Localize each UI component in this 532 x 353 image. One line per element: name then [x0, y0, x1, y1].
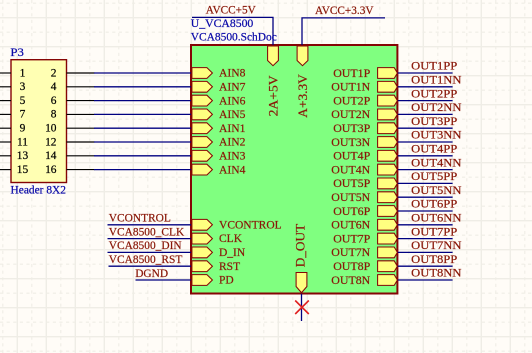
- svg-text:OUT7NN: OUT7NN: [411, 238, 462, 252]
- svg-text:AIN3: AIN3: [219, 149, 246, 163]
- svg-text:AIN4: AIN4: [219, 162, 246, 176]
- svg-text:10: 10: [45, 121, 56, 135]
- svg-text:U_VCA8500: U_VCA8500: [191, 16, 254, 30]
- svg-text:AIN5: AIN5: [219, 107, 246, 121]
- svg-text:1: 1: [20, 65, 26, 79]
- svg-text:D_IN: D_IN: [219, 245, 246, 259]
- svg-text:D_OUT: D_OUT: [293, 224, 308, 268]
- svg-text:5: 5: [20, 93, 26, 107]
- svg-text:AVCC+3.3V: AVCC+3.3V: [315, 3, 374, 17]
- svg-text:OUT6NN: OUT6NN: [411, 211, 462, 225]
- svg-text:OUT4N: OUT4N: [331, 162, 370, 176]
- svg-text:OUT5P: OUT5P: [333, 176, 370, 190]
- svg-text:2: 2: [51, 65, 57, 79]
- svg-text:OUT8N: OUT8N: [331, 273, 370, 287]
- svg-text:OUT1NN: OUT1NN: [411, 73, 462, 87]
- svg-text:OUT6P: OUT6P: [333, 204, 370, 218]
- svg-text:OUT7N: OUT7N: [331, 245, 370, 259]
- svg-text:OUT2NN: OUT2NN: [411, 100, 462, 114]
- svg-text:OUT8NN: OUT8NN: [411, 266, 462, 280]
- svg-text:OUT2N: OUT2N: [331, 107, 370, 121]
- svg-text:OUT5NN: OUT5NN: [411, 183, 462, 197]
- svg-text:OUT7P: OUT7P: [333, 231, 370, 245]
- svg-text:VCA8500_CLK: VCA8500_CLK: [109, 224, 185, 238]
- svg-text:OUT6PP: OUT6PP: [411, 197, 457, 211]
- svg-text:OUT3N: OUT3N: [331, 135, 370, 149]
- svg-text:14: 14: [45, 148, 56, 162]
- svg-text:AIN7: AIN7: [219, 80, 246, 94]
- svg-text:OUT7PP: OUT7PP: [411, 224, 457, 238]
- svg-text:OUT2P: OUT2P: [333, 93, 370, 107]
- svg-text:16: 16: [45, 162, 56, 176]
- svg-text:OUT3P: OUT3P: [333, 121, 370, 135]
- svg-text:13: 13: [17, 148, 28, 162]
- svg-text:VCONTROL: VCONTROL: [219, 217, 282, 231]
- svg-text:VCA8500_DIN: VCA8500_DIN: [109, 238, 182, 252]
- svg-text:OUT3PP: OUT3PP: [411, 114, 457, 128]
- svg-text:VCA8500.SchDoc: VCA8500.SchDoc: [191, 29, 277, 43]
- svg-text:OUT1PP: OUT1PP: [411, 59, 457, 73]
- svg-text:8: 8: [51, 107, 57, 121]
- svg-text:12: 12: [45, 134, 56, 148]
- svg-text:OUT1N: OUT1N: [331, 80, 370, 94]
- svg-text:AIN8: AIN8: [219, 66, 246, 80]
- svg-text:2A+5V: 2A+5V: [266, 75, 281, 117]
- svg-text:6: 6: [51, 93, 57, 107]
- svg-text:VCONTROL: VCONTROL: [109, 211, 171, 225]
- svg-text:OUT8P: OUT8P: [333, 259, 370, 273]
- svg-text:15: 15: [17, 162, 28, 176]
- svg-text:P3: P3: [10, 45, 23, 59]
- svg-text:OUT8PP: OUT8PP: [411, 252, 457, 266]
- svg-text:OUT4P: OUT4P: [333, 149, 370, 163]
- svg-text:OUT1P: OUT1P: [333, 66, 370, 80]
- svg-text:AIN1: AIN1: [219, 121, 246, 135]
- svg-text:11: 11: [17, 134, 28, 148]
- svg-text:7: 7: [20, 107, 26, 121]
- svg-text:OUT2PP: OUT2PP: [411, 86, 457, 100]
- svg-text:OUT3NN: OUT3NN: [411, 128, 462, 142]
- svg-text:OUT5PP: OUT5PP: [411, 169, 457, 183]
- svg-text:Header 8X2: Header 8X2: [11, 183, 67, 197]
- svg-text:OUT4NN: OUT4NN: [411, 155, 462, 169]
- svg-text:A+3.3V: A+3.3V: [295, 74, 310, 118]
- svg-text:OUT6N: OUT6N: [331, 218, 370, 232]
- svg-text:AVCC+5V: AVCC+5V: [206, 3, 256, 17]
- svg-text:CLK: CLK: [219, 231, 242, 245]
- svg-text:9: 9: [20, 121, 26, 135]
- svg-text:OUT4PP: OUT4PP: [411, 142, 457, 156]
- svg-text:AIN2: AIN2: [219, 135, 246, 149]
- svg-text:OUT5N: OUT5N: [331, 190, 370, 204]
- svg-text:RST: RST: [219, 259, 241, 273]
- svg-text:AIN6: AIN6: [219, 93, 246, 107]
- svg-text:DGND: DGND: [135, 266, 168, 280]
- svg-text:VCA8500_RST: VCA8500_RST: [109, 252, 183, 266]
- svg-text:3: 3: [20, 79, 26, 93]
- svg-text:4: 4: [51, 79, 57, 93]
- svg-text:PD: PD: [219, 273, 234, 287]
